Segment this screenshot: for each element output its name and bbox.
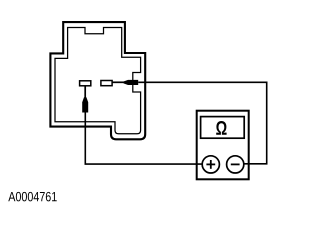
connector outer outline [50,22,145,139]
pin terminal left [80,81,91,86]
minus terminal [227,156,244,173]
pin terminal right [101,81,112,86]
probe body right (black test probe) [124,80,139,85]
plus terminal [202,156,219,173]
ohmmeter body [197,111,249,180]
wire from bottom probe to ohmmeter plus terminal [85,113,202,165]
wire from right probe to ohmmeter minus terminal [138,82,267,164]
connector inner outline [55,28,141,134]
ohm symbol [216,121,226,135]
probe body bottom (black test probe) [82,97,88,112]
probe lead right (stem from pin to probe tip) [113,81,125,83]
figure label A0004761 [8,192,56,202]
ohmmeter display window [201,117,245,139]
probe lead bottom (stem from pin down to probe tip) [84,86,86,98]
